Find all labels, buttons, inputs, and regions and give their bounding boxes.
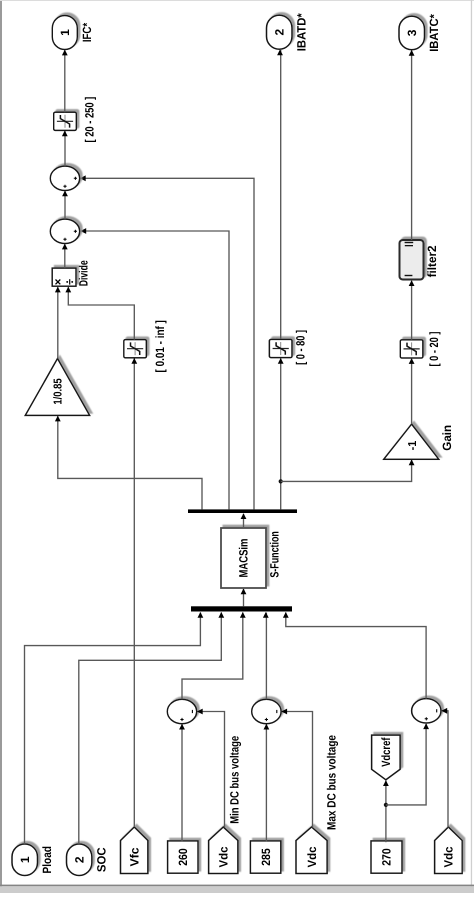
- arrow into mux input 1: [198, 612, 204, 618]
- wire Vdc to sum Min bottom input: [198, 712, 225, 828]
- svg-text:Divide: Divide: [77, 260, 91, 286]
- saturation block [0-80]: [269, 339, 292, 357]
- arrow into output port 1: [62, 50, 68, 56]
- arrow into sum1 bottom input: [80, 175, 86, 181]
- arrow into sum2 left input: [62, 244, 68, 250]
- wire mux to MACSim: [243, 589, 245, 606]
- label Max DC bus voltage: [325, 735, 339, 830]
- svg-text:S-Function: S-Function: [267, 531, 281, 578]
- svg-text:270: 270: [380, 848, 394, 866]
- arrow into MACSim: [241, 588, 247, 594]
- sum block 1: [50, 166, 79, 190]
- wire Vfc to saturation [0.01-inf]: [133, 359, 135, 828]
- svg-text:Vfc: Vfc: [127, 847, 141, 866]
- svg-text:Gain: Gain: [440, 425, 454, 451]
- constant 260: [168, 841, 198, 873]
- wire saturation [0-80] to output port 2: [280, 50, 282, 339]
- label Gain: [440, 425, 454, 451]
- wire 260 to sum Min: [181, 725, 183, 842]
- output port 1 IFC*: [52, 16, 94, 50]
- arrow into gain -1: [409, 459, 415, 465]
- output port 3 IBATC*: [399, 14, 441, 52]
- arrow into sum Min left input: [179, 724, 185, 730]
- arrow into Vdcref: [383, 780, 389, 786]
- svg-text:Vdcref: Vdcref: [379, 737, 393, 767]
- wire Pload to mux input 1: [25, 613, 201, 845]
- arrow into output port 3: [409, 50, 415, 56]
- input port 2 SOC: [67, 844, 109, 876]
- wire gain 1/0.85 to Divide x input: [57, 287, 59, 358]
- svg-text:Pload: Pload: [40, 846, 54, 873]
- wire saturation [0.01-inf] to Divide / input: [68, 287, 134, 339]
- svg-text:Vdc: Vdc: [216, 846, 230, 867]
- frame left gray band: [0, 0, 2, 893]
- svg-text:[ 0.01 - inf ]: [ 0.01 - inf ]: [153, 320, 167, 372]
- arrow into sum C left input: [423, 723, 429, 729]
- svg-text:IFC*: IFC*: [80, 23, 94, 43]
- wire 285 to sum Max: [265, 725, 267, 842]
- arrow into sum1 left input: [62, 191, 68, 197]
- svg-text:[ 0 - 20 ]: [ 0 - 20 ]: [427, 332, 441, 367]
- wire demux out3 to sum1 bottom input: [81, 178, 255, 509]
- input port 1 Pload: [12, 844, 54, 876]
- arrow into sum Min bottom input: [197, 709, 203, 715]
- label [ 0.01 - inf ]: [153, 320, 167, 372]
- svg-text:Max DC bus voltage: Max DC bus voltage: [325, 735, 339, 830]
- svg-text:-1: -1: [407, 440, 419, 450]
- wire demux out4 to saturation [0-80]: [280, 359, 282, 510]
- arrow into mux input 4: [263, 612, 269, 618]
- svg-text:1: 1: [18, 856, 32, 863]
- arrow into Divide / input: [65, 287, 71, 293]
- sum block Max (285 - Vdc): [252, 699, 281, 723]
- arrow into sum Max bottom input: [281, 709, 287, 715]
- From tag Vfc: [121, 827, 148, 874]
- wire 270 branch to sum C left input: [386, 724, 426, 805]
- subsystem block filter2: [400, 240, 424, 280]
- wire Vdc to sum Max bottom input: [282, 712, 313, 828]
- svg-text:Vdc: Vdc: [442, 846, 456, 867]
- wire sum Min to mux input 3: [182, 613, 243, 700]
- arrow into saturation [0-20]: [409, 358, 415, 364]
- arrow into filter2: [409, 280, 415, 286]
- wire saturation [0-20] to filter2: [411, 281, 413, 340]
- saturation block [0.01-inf]: [124, 340, 147, 358]
- label [ 0 - 20 ]: [427, 332, 441, 367]
- S-function block MACSim: [221, 528, 281, 588]
- arrow into sum C bottom input: [441, 708, 447, 714]
- wire MACSim to demux: [243, 514, 245, 528]
- arrow into gain 1/0.85: [55, 416, 61, 422]
- frame bottom dark line: [0, 885, 474, 887]
- mux bar: [191, 606, 292, 611]
- svg-text:2: 2: [272, 29, 286, 36]
- saturation block [20-250]: [54, 112, 77, 130]
- frame bottom gray strip: [0, 886, 474, 893]
- saturation block [0-20]: [400, 340, 423, 358]
- svg-text:IBATC*: IBATC*: [427, 14, 441, 52]
- wire Divide to sum2: [64, 244, 66, 268]
- arrow into Divide x input: [55, 287, 61, 293]
- svg-text:[ 0 - 80 ]: [ 0 - 80 ]: [293, 330, 307, 365]
- label filter2: [425, 245, 439, 277]
- junction on demux out4: [279, 479, 283, 483]
- wire sum Max to mux input 4: [265, 613, 267, 700]
- arrow into saturation [20-250]: [62, 131, 68, 137]
- svg-text:285: 285: [259, 848, 273, 866]
- constant 285: [250, 841, 280, 873]
- arrow into mux input 3: [240, 612, 246, 618]
- sum block (270 - Vdc): [412, 699, 441, 723]
- svg-text:1: 1: [58, 29, 72, 36]
- gain -1: [384, 424, 439, 459]
- constant 270: [371, 841, 402, 873]
- junction on 270 wire: [384, 803, 388, 807]
- wire filter2 to output port 3: [411, 51, 413, 241]
- arrow into mux input 5: [283, 612, 289, 618]
- svg-text:Min DC bus voltage: Min DC bus voltage: [228, 736, 242, 824]
- arrow into output port 2: [277, 49, 283, 55]
- arrow into saturation [0-80]: [278, 358, 284, 364]
- label [ 20 - 250 ]: [82, 97, 96, 143]
- wire sum1 to saturation [20-250]: [64, 131, 66, 166]
- From tag Vdc (2): [296, 827, 327, 874]
- arrow into sum Max left input: [264, 724, 270, 730]
- wire demux out2 to sum2 bottom input: [81, 231, 229, 509]
- arrow into mux input 2: [218, 612, 224, 618]
- wire 270 to Vdcref: [385, 781, 387, 843]
- label [ 0 - 80 ]: [293, 330, 307, 365]
- svg-text:3: 3: [405, 29, 419, 36]
- wire saturation [20-250] to output port 1: [64, 50, 66, 112]
- Divide block: [52, 268, 76, 286]
- From tag Vdc (1): [209, 827, 238, 874]
- arrow into sum2 bottom input: [80, 228, 86, 234]
- wire gain -1 to saturation [0-20]: [411, 359, 413, 424]
- arrow into demux: [241, 513, 247, 519]
- svg-text:[ 20 - 250 ]: [ 20 - 250 ]: [82, 97, 96, 143]
- sum block 2: [50, 219, 79, 243]
- From tag Vdc (3): [435, 827, 463, 874]
- sum block Min (260 - Vdc): [167, 699, 196, 723]
- svg-text:Vdc: Vdc: [305, 846, 319, 867]
- svg-text:filter2: filter2: [425, 245, 439, 277]
- svg-text:2: 2: [72, 856, 86, 863]
- demux bar: [188, 509, 297, 513]
- frame top light line: [0, 0, 474, 1]
- frame right light line: [471, 0, 472, 893]
- gain 1/0.85: [25, 359, 89, 416]
- wire sum2 to sum1: [64, 191, 66, 219]
- wire demux out1 to gain 1/0.85: [58, 416, 202, 509]
- wire SOC to mux input 2: [79, 613, 222, 845]
- Goto tag Vdcref: [372, 735, 401, 780]
- arrow into saturation [0.01-inf]: [131, 358, 137, 364]
- label Divide: [77, 260, 91, 286]
- svg-text:SOC: SOC: [95, 847, 109, 872]
- svg-text:1/0.85: 1/0.85: [53, 378, 65, 405]
- svg-text:260: 260: [176, 848, 190, 866]
- wire branch to gain -1: [281, 460, 412, 481]
- label Min DC bus voltage: [228, 736, 242, 824]
- svg-text:IBATD*: IBATD*: [295, 13, 309, 51]
- svg-text:MACSim: MACSim: [237, 539, 251, 578]
- wire Vdc to sum C bottom input: [442, 711, 448, 828]
- wire sum C to mux input 5: [286, 613, 426, 699]
- output port 2 IBATD*: [267, 13, 309, 51]
